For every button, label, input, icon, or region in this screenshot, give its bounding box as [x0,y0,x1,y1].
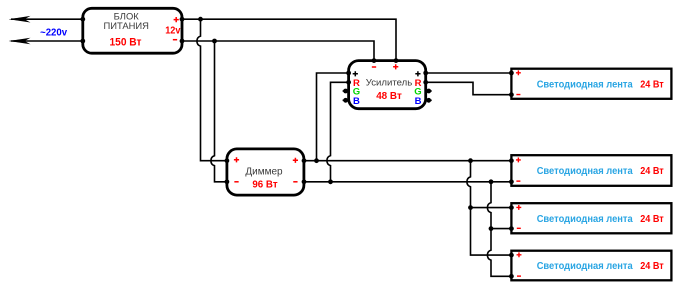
svg-text:Светодиодная лента: Светодиодная лента [537,166,633,177]
wire PSU + branch down to dimmer + (hop over - wire) [197,19,227,161]
svg-text:Диммер: Диммер [245,166,283,177]
svg-text:48 Вт: 48 Вт [376,91,402,102]
terminal dot dimmer left - [225,179,230,184]
svg-text:Светодиодная лента: Светодиодная лента [537,261,633,272]
terminal dot strip 4 + [509,253,514,258]
amplifier U1 box [349,61,426,109]
pin label + top [393,64,398,69]
svg-text:B: B [353,96,360,107]
wire PSU - to amplifier - (top bus) [182,41,374,60]
terminal dot amp top - [372,58,377,63]
label Усилитель [366,77,412,88]
svg-text:24 Вт: 24 Вт [640,166,664,177]
label Светодиодная лента (strip 2) [537,166,633,177]
svg-text:24 Вт: 24 Вт [640,79,664,90]
net label ~220v [40,27,67,38]
pin labels strip 4 + - [517,252,522,276]
pin labels right + R G B [414,71,421,107]
pin labels dimmer right + - [293,158,298,183]
svg-text:Светодиодная лента: Светодиодная лента [537,79,633,90]
terminal dot amp top + [394,58,399,63]
wire + branch to strip 3 + [471,207,512,209]
value label 150 Вт [110,36,143,48]
terminal dot dimmer right + [302,158,307,163]
svg-text:24 Вт: 24 Вт [640,214,664,225]
pin labels left + R G B [353,71,360,107]
pin label - top [372,66,376,68]
LED strip 1 box [511,69,671,99]
wire AC line L to PSU [11,18,83,20]
svg-text:12v: 12v [165,26,180,37]
stub amp right B [426,98,432,103]
svg-text:ПИТАНИЯ: ПИТАНИЯ [103,20,148,31]
svg-text:Светодиодная лента: Светодиодная лента [537,214,633,225]
power supply PSU box [83,8,182,53]
junction - bus branch [489,179,494,184]
svg-text:~220v: ~220v [40,27,67,38]
terminal dot strip 2 - [509,179,514,184]
wire amp left R down to dimmer output - (hop over + bus) [327,82,349,182]
pin label + 12v - on PSU [165,17,180,40]
value label 24 Вт (strip 3) [640,214,664,225]
label Светодиодная лента (strip 3) [537,214,633,225]
terminal dot PSU +12v [180,17,185,22]
wire - branch to strip 3 - [491,228,511,230]
terminal dot PSU left bottom [80,39,85,44]
value label 24 Вт (strip 2) [640,166,664,177]
junction amp R tap on - bus [328,179,333,184]
stub amp left G [343,89,349,94]
svg-text:96 Вт: 96 Вт [252,180,277,191]
label Диммер [245,166,283,177]
junction amp + tap on + bus [314,158,319,163]
wire - bus branch down to strips 3 and 4 (hops over strip3+ and strip4+ wires) [487,182,511,276]
terminal dot strip 2 + [509,158,514,163]
pin labels strip 1 + - [516,70,521,95]
terminal dot strip 4 - [509,274,514,279]
svg-text:24 Вт: 24 Вт [640,261,664,272]
terminal dot strip 1 - [509,92,514,97]
wire dimmer - bus to LED strip 2 - [304,181,511,183]
terminal dot strip 1 + [509,71,514,76]
pin labels dimmer left + - [234,157,239,182]
junction strip 3 + tap [468,205,473,210]
terminal dot amp right R [423,80,428,85]
junction + bus branch [468,158,473,163]
terminal dot dimmer left + [225,158,230,163]
terminal dot PSU left top [80,17,85,22]
value label 24 Вт (strip 1) [640,79,664,90]
wire amp left + down to dimmer output + [317,73,349,161]
terminal dot strip 3 + [509,205,514,210]
terminal dot PSU -12v [180,39,185,44]
wire amp right + to LED strip 1 + [426,72,512,74]
label Светодиодная лента (strip 1) [537,79,633,90]
wire PSU - branch down to dimmer - (hop over + wire) [211,41,227,182]
wire amp right R to LED strip 1 - [426,82,512,94]
junction strip 3 - tap [489,226,494,231]
junction PSU + branch [198,17,203,22]
arrow AC input top [9,16,31,23]
wire + bus branch down to strips 3 and 4 (hop over - bus) [467,161,511,255]
value label 48 Вт [376,91,402,102]
wire PSU + to amplifier + (top bus) [182,19,396,60]
pin labels strip 3 + - [516,205,521,229]
terminal dot amp left + [346,71,351,76]
value label 24 Вт (strip 4) [640,261,664,272]
arrow AC input bottom [9,38,31,45]
label БЛОК ПИТАНИЯ [103,11,148,32]
terminal dot strip 3 - [509,226,514,231]
dimmer box [227,149,304,195]
stub amp left B [343,98,349,103]
LED strip 2 box [511,155,671,186]
pin labels strip 2 + - [516,158,521,182]
LED strip 4 box [511,251,671,281]
value label 96 Вт [252,180,277,191]
LED strip 3 box [511,203,671,233]
terminal dot amp right + [423,71,428,76]
svg-text:B: B [415,96,422,107]
stub amp right G [426,89,432,94]
wire AC line N to PSU [11,40,83,42]
svg-text:Усилитель: Усилитель [366,77,412,88]
label Светодиодная лента (strip 4) [537,261,633,272]
svg-text:150 Вт: 150 Вт [110,36,143,48]
wire dimmer + bus to LED strip 2 + [304,160,511,162]
terminal dot dimmer right - [302,179,307,184]
terminal dot amp left R [346,80,351,85]
junction PSU - branch [212,39,217,44]
